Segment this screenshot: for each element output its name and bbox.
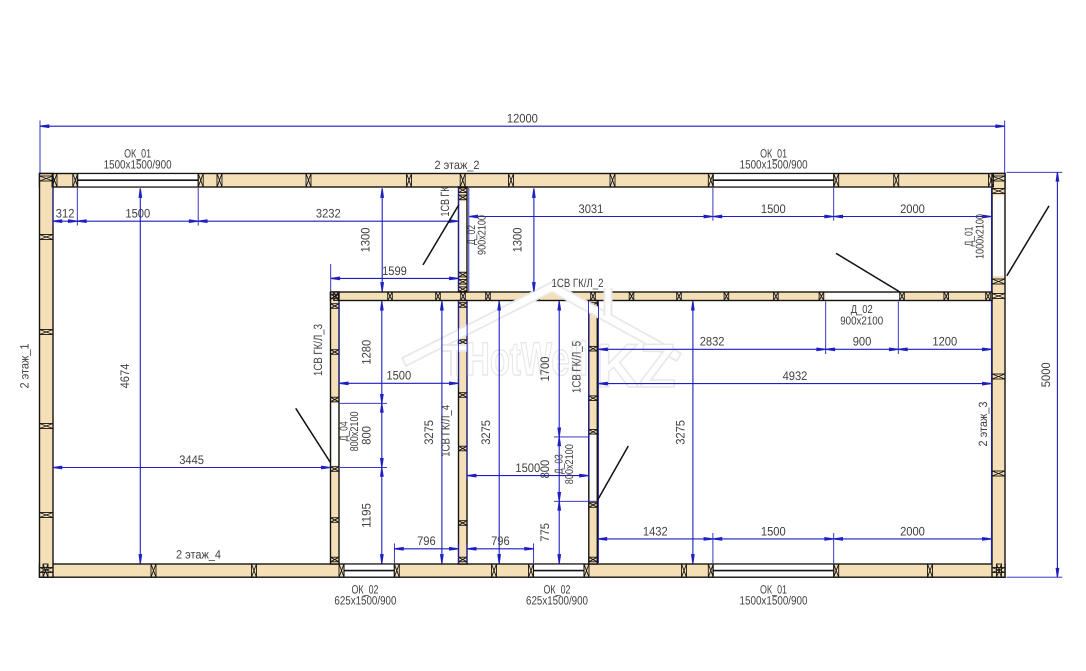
svg-text:Д_02: Д_02	[851, 304, 873, 316]
dim 796 b	[467, 548, 533, 551]
stud marks wall _4	[459, 303, 468, 562]
dim 1500 left room	[339, 382, 458, 385]
stud marks top wall	[52, 174, 994, 188]
wall exterior top	[40, 174, 1006, 188]
window ОК_01 bottom-right 1500х1500/900	[713, 565, 834, 577]
svg-text:3275: 3275	[422, 420, 436, 445]
window ОК_01 top-left 1500х1500/900	[77, 174, 198, 186]
extension lines dim 12000	[39, 121, 41, 174]
wall interior 1СВ ГК/Л_5 vertical	[589, 301, 598, 565]
door opening Д_01 in right wall	[993, 195, 1004, 276]
svg-text:2000: 2000	[900, 202, 925, 216]
svg-text:1280: 1280	[359, 340, 373, 365]
extension lines 796 left	[393, 543, 395, 563]
svg-text:12000: 12000	[507, 112, 538, 126]
door Д_02 swing line (horizontal wall)	[836, 253, 900, 292]
dim 3445	[53, 466, 331, 469]
svg-text:1500х1500/900: 1500х1500/900	[740, 594, 808, 608]
svg-text:1700: 1700	[538, 357, 552, 382]
svg-text:1599: 1599	[382, 264, 407, 278]
svg-text:800: 800	[359, 426, 373, 445]
svg-text:900х2100: 900х2100	[840, 315, 883, 327]
dim 1700/800/775	[558, 301, 561, 563]
svg-text:3031: 3031	[579, 202, 604, 216]
dim 3275 c	[692, 301, 695, 563]
svg-text:900х2100: 900х2100	[477, 215, 489, 255]
svg-text:2 этаж_4: 2 этаж_4	[176, 548, 221, 562]
svg-text:2 этаж_3: 2 этаж_3	[976, 401, 990, 446]
svg-text:2832: 2832	[700, 335, 725, 349]
svg-text:1СВ ГК/Л_5: 1СВ ГК/Л_5	[569, 341, 583, 393]
dim 12000	[40, 125, 1005, 128]
svg-text:1300: 1300	[511, 228, 525, 253]
wall interior 1СВ ГК/Л_2 horizontal	[331, 292, 993, 301]
svg-text:2 этаж_1: 2 этаж_1	[18, 343, 32, 388]
svg-text:1500х1500/900: 1500х1500/900	[740, 158, 808, 172]
door Д_02 swing line (upper wall)	[423, 205, 459, 265]
extension line 1599 left	[330, 264, 332, 291]
dim 4932	[599, 382, 992, 385]
wall interior 1СВ ГК/Л_3 vertical	[331, 292, 340, 564]
svg-text:1СВ ГК: 1СВ ГК	[438, 186, 452, 216]
door opening Д_04 in wall _3	[332, 403, 339, 466]
svg-text:4674: 4674	[118, 364, 132, 389]
dim 1599	[331, 277, 459, 280]
stud marks upper vertical wall	[459, 188, 468, 292]
extension lines dim 5000	[1007, 171, 1063, 173]
stud marks left wall	[40, 176, 54, 573]
watermark chimney	[604, 288, 613, 316]
extension lines top-right chain	[712, 188, 714, 221]
svg-text:1000х2100: 1000х2100	[975, 214, 987, 259]
svg-text:900: 900	[853, 335, 872, 349]
wall interior 1СВ ГК/Л_4 vertical	[459, 301, 468, 565]
svg-text:1500: 1500	[761, 202, 786, 216]
svg-text:2000: 2000	[900, 524, 925, 538]
dim 3275 a	[441, 301, 444, 563]
wall exterior bottom	[40, 564, 1006, 577]
door opening Д_03 in wall _5	[590, 435, 597, 501]
window ОК_02 bottom-mid 625х1500/900	[534, 565, 585, 577]
watermark HotWellKZ roof	[408, 287, 675, 360]
door Д_03 swing line	[597, 446, 628, 500]
window ОК_01 top-right 1500х1500/900	[713, 174, 834, 186]
dim 1300 left	[381, 189, 384, 292]
dim 3031/1500/2000	[469, 215, 992, 218]
svg-text:1500: 1500	[125, 207, 150, 221]
svg-text:1432: 1432	[643, 524, 668, 538]
dim 1500 middle room	[467, 474, 588, 477]
window ОК_02 bottom-left 625х1500/900	[344, 565, 394, 577]
dim 4674	[139, 189, 142, 564]
door opening Д_02 in horizontal wall	[825, 293, 900, 300]
svg-text:796: 796	[417, 534, 436, 548]
dim 2832/900/1200	[599, 348, 992, 351]
extension lines 2832/900/1200	[598, 301, 600, 563]
svg-text:1500х1500/900: 1500х1500/900	[104, 158, 172, 172]
extension ticks 1700/800/775 chain	[554, 436, 589, 438]
svg-text:4932: 4932	[783, 369, 808, 383]
dim 5000	[1056, 172, 1059, 577]
svg-text:3275: 3275	[674, 420, 688, 445]
extension lines bottom-right chain	[712, 533, 714, 563]
svg-text:2 этаж_2: 2 этаж_2	[435, 158, 480, 172]
stud marks horizontal interior wall	[334, 292, 991, 301]
svg-text:312: 312	[56, 207, 75, 221]
svg-text:1500: 1500	[761, 524, 786, 538]
svg-text:3275: 3275	[479, 420, 493, 445]
svg-text:KZ: KZ	[596, 332, 676, 401]
extension ticks 1280/800/1195 chain	[340, 402, 387, 404]
dim 1300 right	[533, 189, 536, 292]
dim 796 a	[394, 548, 458, 551]
svg-text:1СВ ГК/Л_3: 1СВ ГК/Л_3	[311, 324, 325, 376]
extension lines 1500 middle room	[466, 301, 468, 480]
door opening Д_02 in upper vertical wall	[460, 202, 467, 272]
svg-text:800х2100: 800х2100	[349, 411, 361, 451]
wall exterior right	[992, 174, 1005, 578]
watermark left wall piece	[442, 348, 467, 376]
svg-text:1500: 1500	[515, 461, 540, 475]
stud marks right wall	[992, 176, 1005, 573]
dim 312/1500/3232	[53, 220, 459, 223]
svg-text:1195: 1195	[359, 503, 373, 528]
dim 1280/800/1195	[381, 301, 384, 563]
svg-text:1СВ ГК/Л_4: 1СВ ГК/Л_4	[438, 405, 452, 457]
svg-text:1500: 1500	[386, 369, 411, 383]
extension lines top-left chain	[52, 188, 54, 226]
svg-text:796: 796	[491, 534, 510, 548]
svg-text:625х1500/900: 625х1500/900	[526, 594, 588, 608]
svg-text:1200: 1200	[932, 335, 957, 349]
svg-text:1СВ ГК/Л_2: 1СВ ГК/Л_2	[552, 276, 604, 290]
svg-text:3445: 3445	[179, 453, 204, 467]
extension lines 1500 left room	[338, 301, 340, 388]
stud marks wall _3	[331, 294, 340, 562]
dim 3275 b	[498, 301, 501, 563]
svg-text:3232: 3232	[316, 207, 341, 221]
wall interior 1СВ ГК/Л_1 vertical upper	[459, 187, 468, 292]
dim 1432/1500/2000	[598, 538, 992, 541]
door Д_04 swing line	[296, 408, 331, 462]
svg-text:1300: 1300	[358, 228, 372, 253]
svg-text:625х1500/900: 625х1500/900	[334, 594, 396, 608]
svg-text:5000: 5000	[1039, 362, 1053, 387]
stud marks wall _5	[589, 303, 598, 562]
door Д_01 swing line	[1007, 206, 1049, 276]
stud marks bottom wall	[43, 564, 1002, 577]
extension lines 796 right	[466, 543, 468, 563]
svg-text:800х2100: 800х2100	[564, 444, 576, 484]
wall exterior left	[40, 174, 54, 578]
svg-text:775: 775	[538, 523, 552, 542]
